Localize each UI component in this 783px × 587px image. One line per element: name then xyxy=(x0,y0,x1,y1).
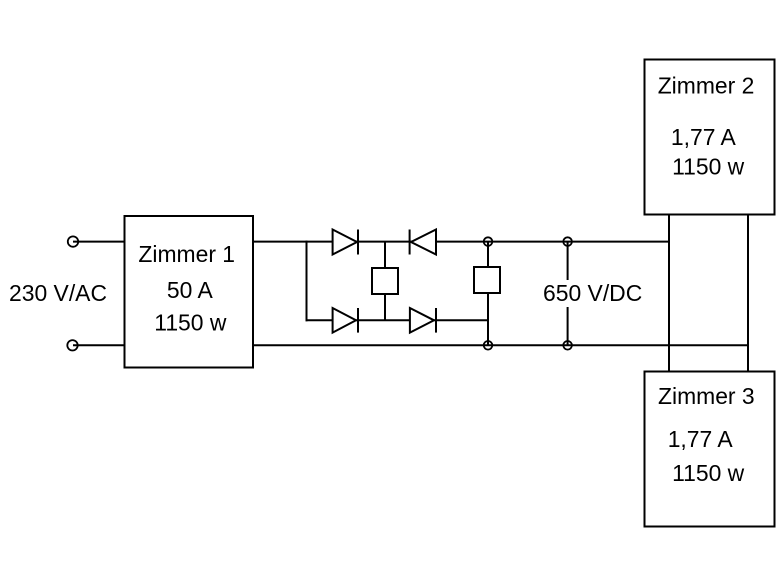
svg-text:50 A: 50 A xyxy=(167,277,214,303)
svg-text:Zimmer 1: Zimmer 1 xyxy=(138,241,235,267)
svg-text:1,77 A: 1,77 A xyxy=(668,426,734,452)
svg-text:Zimmer 3: Zimmer 3 xyxy=(658,383,755,409)
svg-text:1,77 A: 1,77 A xyxy=(671,124,737,150)
svg-text:650 V/DC: 650 V/DC xyxy=(543,280,642,306)
svg-text:1150 w: 1150 w xyxy=(154,310,227,336)
svg-text:230 V/AC: 230 V/AC xyxy=(9,280,107,306)
svg-text:1150 w: 1150 w xyxy=(672,460,745,486)
svg-text:Zimmer 2: Zimmer 2 xyxy=(658,72,755,98)
svg-text:1150 w: 1150 w xyxy=(672,153,745,179)
